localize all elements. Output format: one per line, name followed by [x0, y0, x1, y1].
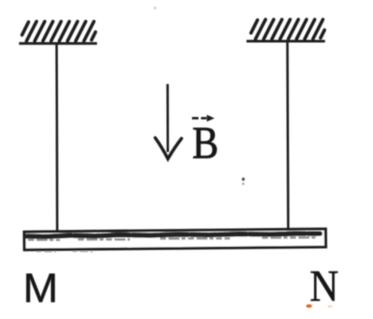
svg-text:B: B — [192, 118, 218, 168]
svg-text:M: M — [23, 266, 58, 311]
svg-text:N: N — [310, 263, 339, 311]
